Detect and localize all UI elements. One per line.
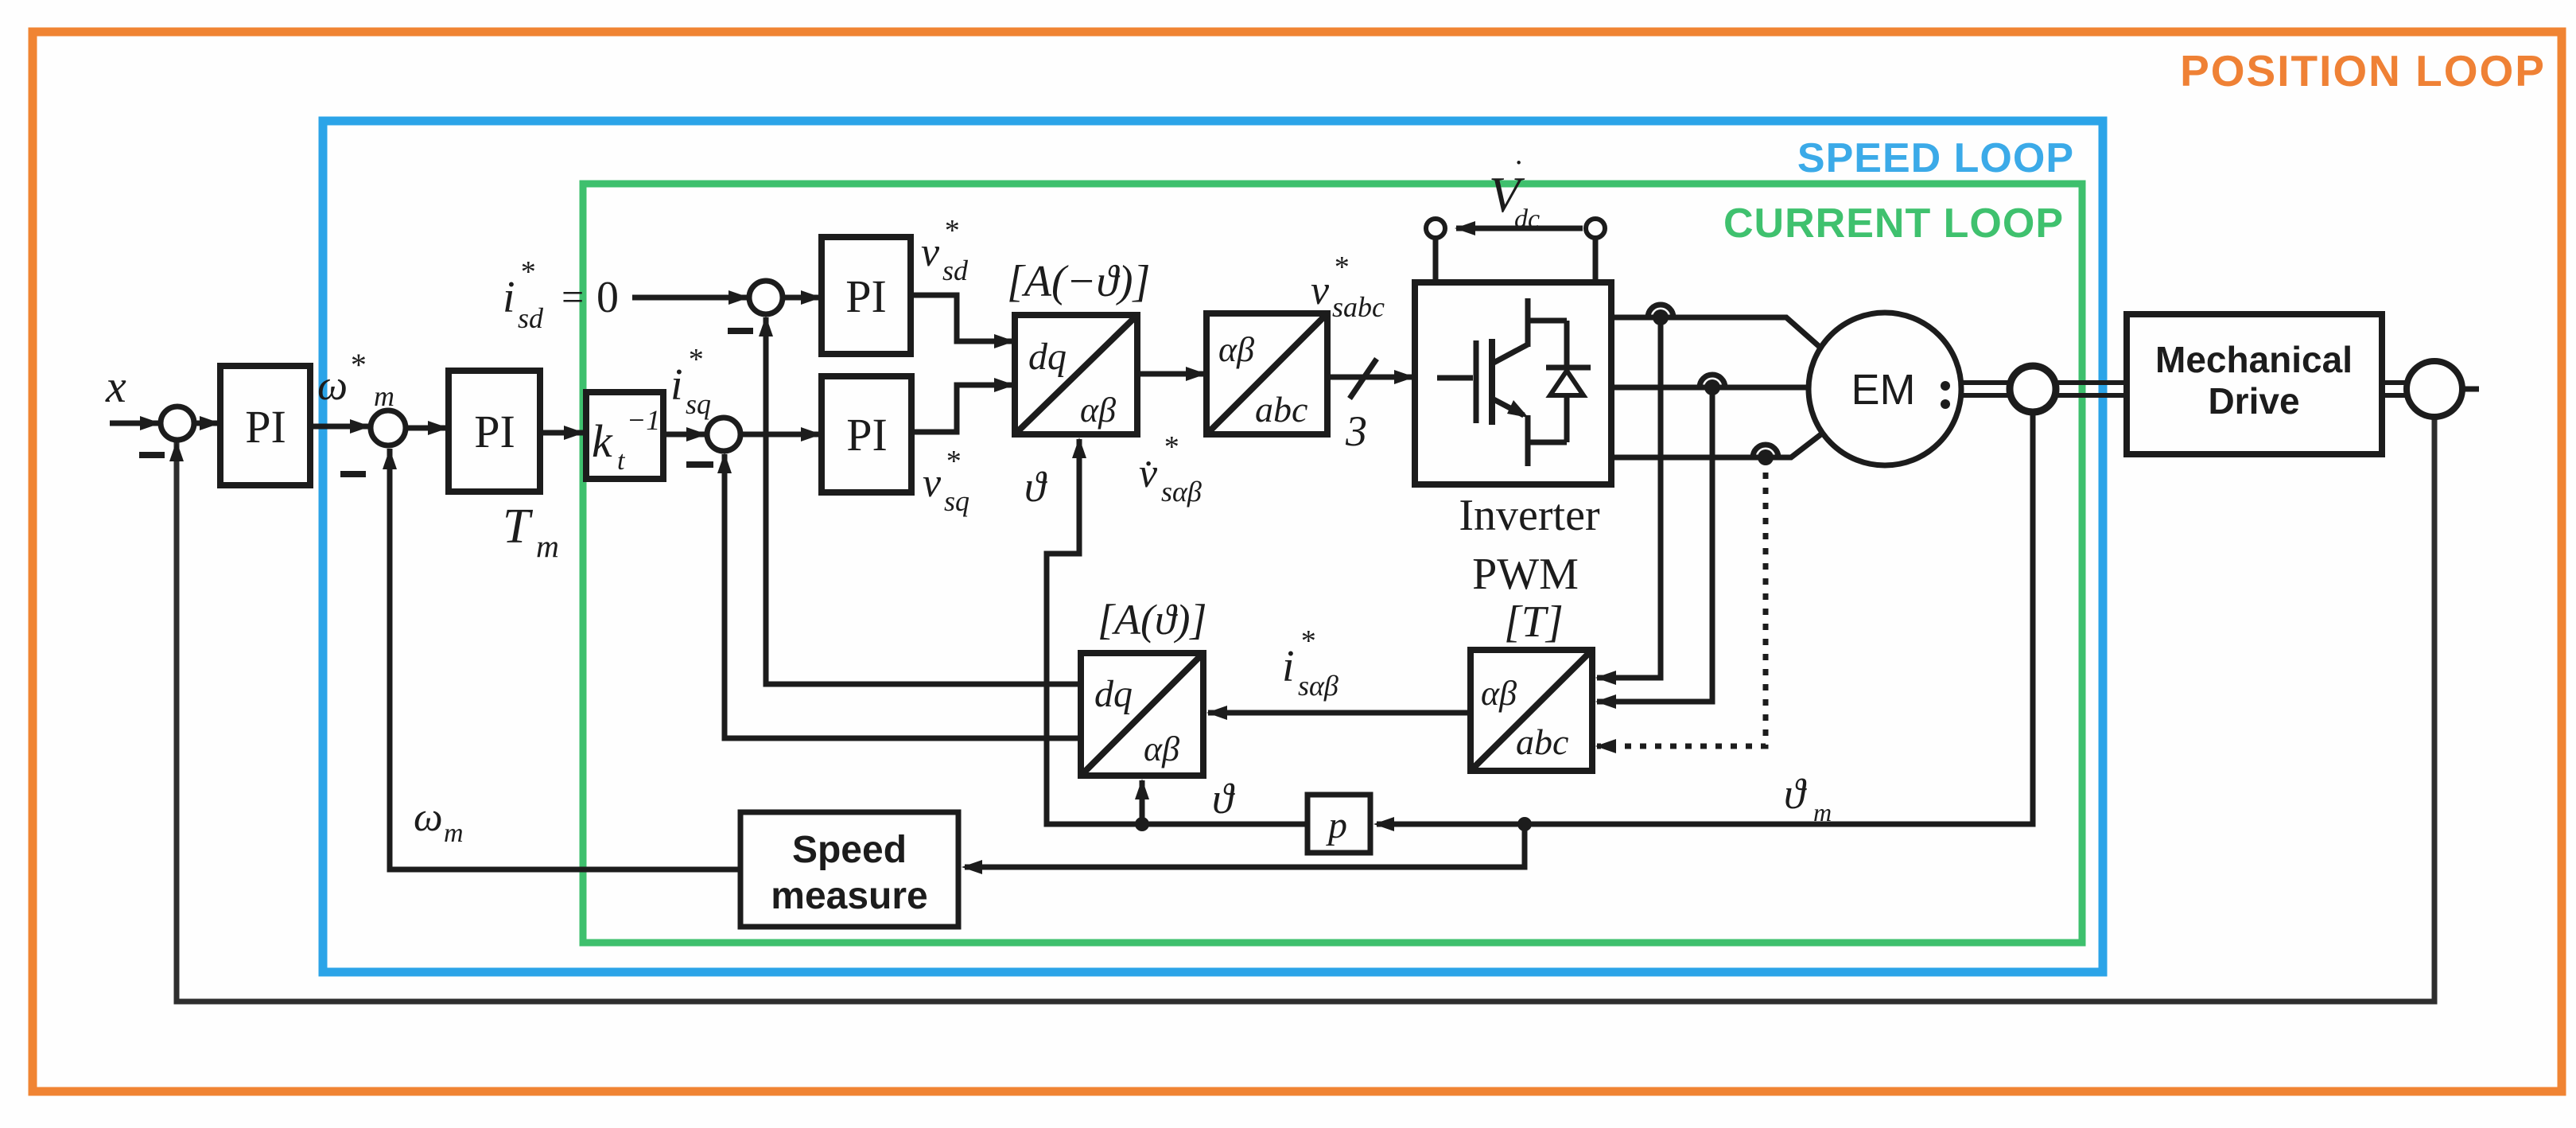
block PI current q [822, 376, 911, 492]
arrow into inverter [1394, 370, 1415, 384]
block speed measure [740, 812, 958, 927]
arrow into sum2 [350, 419, 371, 434]
svg-text:Inverter: Inverter [1459, 491, 1600, 540]
svg-text:SPEED LOOP: SPEED LOOP [1797, 135, 2074, 181]
arrow into ab-abc [1186, 367, 1206, 381]
wire vsabc to inverter [1327, 375, 1413, 380]
label vsabc star [1311, 251, 1385, 323]
wire sum3 to PI4 [740, 432, 820, 438]
arrow into sum3 [686, 427, 707, 441]
svg-text:m: m [1813, 798, 1832, 827]
wire isq feedback [725, 454, 1081, 738]
block A(-theta) dq to ab [1015, 315, 1137, 434]
svg-text:v: v [1311, 268, 1330, 313]
svg-text:˙: ˙ [1511, 154, 1522, 191]
arrow into PI1 [200, 416, 220, 430]
svg-text:sαβ: sαβ [1298, 670, 1339, 702]
svg-text:[A(ϑ)]: [A(ϑ)] [1098, 596, 1206, 644]
svg-text:Mechanical: Mechanical [2155, 339, 2353, 380]
svg-text:m: m [444, 819, 464, 848]
output stub [2462, 387, 2479, 392]
label isab star [1282, 624, 1339, 702]
arrow into A(theta) [1206, 706, 1227, 720]
svg-text:i: i [503, 273, 515, 322]
svg-text:sabc: sabc [1332, 291, 1385, 323]
svg-text:PI: PI [845, 270, 887, 322]
wire isd0 to sum4 [632, 295, 748, 301]
svg-text:[A(−ϑ)]: [A(−ϑ)] [1007, 257, 1150, 306]
arrow into T input c [1595, 739, 1616, 753]
arrow into PI3 [801, 290, 822, 305]
label isd = 0 [503, 255, 619, 334]
label omega star m [317, 347, 394, 412]
wire inverter terminal stem left [1433, 238, 1439, 282]
block mechanical drive [2127, 314, 2382, 454]
wire inverter terminal stem right [1593, 238, 1599, 282]
label vsd star [921, 214, 969, 286]
arrow into p [1373, 817, 1394, 831]
svg-text:EM: EM [1851, 366, 1916, 414]
junction dot speed [1517, 817, 1532, 831]
wire sum4 to PI3 [783, 295, 820, 301]
svg-text:abc: abc [1255, 389, 1307, 430]
svg-text:measure: measure [771, 875, 927, 917]
arrow into T input b [1595, 694, 1616, 709]
label isq star [670, 343, 711, 420]
svg-text:p: p [1326, 804, 1347, 846]
wire theta to A(theta) [1140, 780, 1145, 824]
svg-text:Speed: Speed [792, 829, 907, 871]
svg-text:PI: PI [846, 409, 888, 461]
sensor dot c [1758, 449, 1774, 465]
wire PI1 to sum2 [310, 424, 369, 430]
arrow into PI4 [801, 427, 822, 441]
svg-text:3: 3 [1345, 407, 1367, 455]
block T ab to abc measure [1471, 650, 1592, 771]
svg-text:m: m [536, 528, 559, 564]
block inverter [1415, 282, 1611, 484]
svg-text:*: * [945, 445, 960, 478]
svg-text:PI: PI [245, 401, 286, 453]
block PI current d [822, 237, 911, 354]
svg-text:=: = [561, 274, 584, 319]
svg-text:sq: sq [944, 485, 969, 517]
wire sensor a to T block [1597, 317, 1661, 678]
svg-text:sαβ: sαβ [1161, 476, 1202, 508]
block p pole pairs [1307, 795, 1370, 853]
block PI speed [449, 371, 540, 492]
block A(theta) dq to ab feedback [1081, 653, 1203, 776]
wire speed feedback wm [390, 449, 739, 869]
svg-text:x: x [105, 360, 126, 412]
svg-text:PWM: PWM [1472, 550, 1579, 599]
svg-text:v̇: v̇ [1139, 451, 1158, 496]
block PI position [220, 366, 310, 485]
label mechanical drive [2155, 339, 2353, 422]
wire PI3 to A(-theta) [911, 295, 1013, 341]
IGBT emitter arrow [1507, 400, 1529, 418]
summing node S2 [371, 410, 406, 445]
shaft double line EM to encoder [1961, 383, 2010, 395]
wire A(-theta) to abtoabc [1137, 371, 1205, 377]
svg-text:Drive: Drive [2208, 380, 2299, 422]
sensor hop b [1700, 375, 1725, 387]
arrow into sum1 [140, 416, 161, 430]
label kt inverse [592, 404, 660, 476]
label vsq star [923, 445, 969, 517]
wire position feedback [177, 417, 2434, 1002]
label Vdc [1489, 154, 1540, 234]
arrow into sum3 bottom [717, 453, 732, 473]
arrow Vdc [1455, 221, 1475, 235]
sensor dot b [1704, 379, 1720, 395]
arrow into A(-theta) d input [994, 334, 1015, 348]
arrow into A(theta) bottom [1135, 779, 1149, 799]
sensor hop c [1753, 445, 1778, 457]
svg-text:*: * [1163, 430, 1178, 464]
shaft colon mark [1941, 381, 1950, 391]
svg-text:ω: ω [317, 361, 348, 409]
svg-text:t: t [617, 446, 626, 476]
svg-text:dq: dq [1094, 673, 1133, 715]
svg-text:ϑ: ϑ [1212, 775, 1235, 823]
svg-text:*: * [1333, 251, 1348, 284]
svg-text:ϑ: ϑ [1784, 770, 1807, 818]
wire isd feedback [766, 317, 1081, 684]
arrow into sum1 bottom [169, 441, 184, 461]
summing node S3 [707, 418, 740, 451]
svg-text:αβ: αβ [1218, 330, 1254, 369]
wire x input [110, 421, 159, 426]
svg-text:*: * [349, 347, 365, 383]
block kt inverse [586, 392, 663, 479]
svg-text:i: i [670, 360, 683, 410]
wire PI4 to A(-theta) [911, 385, 1013, 432]
svg-text:PI: PI [474, 406, 515, 457]
minus sum4 [728, 328, 753, 334]
arrow into speed measure [962, 860, 982, 874]
wire shaft angle trunk [1377, 412, 2033, 824]
label speed measure [771, 829, 927, 917]
svg-text:[T]: [T] [1504, 597, 1564, 647]
label vsab star [1139, 430, 1202, 508]
summing node S1 [161, 406, 194, 440]
arrow into sum4 bottom [759, 316, 773, 336]
svg-text:dc: dc [1514, 204, 1540, 234]
shaft double line mech drive to output [2382, 383, 2407, 395]
svg-text:v: v [923, 461, 942, 506]
label theta m encoder [1784, 770, 1832, 827]
inverter terminal circle left [1426, 219, 1445, 238]
wire sum1 to PI1 [194, 421, 219, 426]
svg-text:αβ: αβ [1481, 674, 1517, 713]
arrow into sum2 bottom [383, 449, 397, 469]
inverter terminal circle right [1586, 219, 1605, 238]
wire inverter phase b [1611, 385, 1809, 391]
svg-text:ω: ω [414, 795, 443, 840]
load output circle [2407, 361, 2462, 417]
shaft double line encoder to mech drive [2056, 383, 2127, 395]
wire inverter phase a [1611, 317, 1820, 348]
svg-text:abc: abc [1516, 722, 1568, 762]
svg-text:dq: dq [1028, 336, 1067, 378]
svg-text:*: * [519, 255, 534, 289]
wire T block output isab [1208, 710, 1471, 716]
svg-text:αβ: αβ [1080, 391, 1116, 430]
block ab to abc [1206, 313, 1327, 434]
wire sensor b to T block [1597, 387, 1712, 702]
three-phase slash [1350, 359, 1377, 399]
svg-text:0: 0 [596, 273, 619, 322]
arrow into T input a [1595, 671, 1616, 685]
motor EM circle [1809, 313, 1961, 465]
svg-text:v: v [921, 230, 940, 275]
wire PI2 to kt [540, 430, 583, 436]
svg-text:sd: sd [518, 302, 544, 334]
svg-text:*: * [943, 214, 958, 247]
minus sum1 [139, 452, 165, 458]
svg-text:POSITION LOOP: POSITION LOOP [2180, 46, 2546, 95]
svg-text:*: * [1300, 624, 1315, 658]
speed loop border [323, 121, 2103, 972]
svg-text:sq: sq [686, 388, 711, 420]
svg-text:i: i [1282, 642, 1295, 691]
svg-text:αβ: αβ [1144, 729, 1179, 768]
svg-text:T: T [503, 500, 534, 554]
wire Vdc arrow line [1456, 226, 1583, 231]
wire inverter phase c [1611, 434, 1822, 457]
svg-text:k: k [592, 415, 613, 467]
svg-text:*: * [687, 343, 702, 376]
summing node S4 [749, 281, 783, 314]
wire p output theta [1047, 439, 1307, 824]
sensor dot a [1653, 309, 1669, 325]
arrow into A(-theta) q input [994, 378, 1015, 392]
svg-text:CURRENT LOOP: CURRENT LOOP [1723, 200, 2064, 247]
svg-text:sd: sd [942, 255, 969, 286]
junction dot theta [1135, 817, 1149, 831]
label omega m [414, 795, 464, 848]
svg-text:m: m [374, 380, 394, 412]
arrow into kt [564, 426, 585, 440]
minus sum2 [340, 471, 366, 477]
encoder circle [2010, 366, 2056, 412]
arrow into PI2 [428, 421, 449, 435]
wire kt to sum3 [665, 432, 705, 438]
inverter IGBT symbol [1437, 298, 1591, 466]
arrow into sum4 [729, 290, 749, 305]
svg-text:ϑ: ϑ [1024, 463, 1047, 511]
label Tm [503, 500, 559, 564]
sensor hop a [1648, 305, 1673, 317]
wire sensor c dashed to T block [1597, 457, 1766, 746]
arrow into A(-theta) bottom [1072, 438, 1086, 458]
wire speed measure input [965, 824, 1525, 867]
svg-text:−1: −1 [627, 404, 660, 436]
minus sum3 [686, 461, 713, 468]
current loop border [583, 184, 2082, 943]
wire sum2 to PI2 [406, 426, 447, 431]
